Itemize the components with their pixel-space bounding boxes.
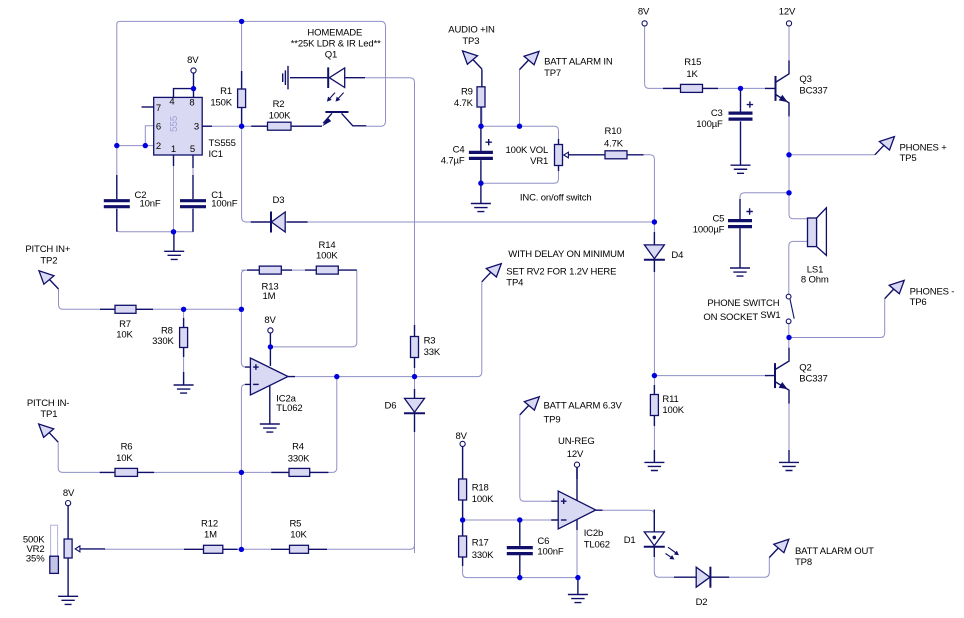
svg-text:TP1: TP1 <box>40 409 57 420</box>
svg-text:VR1: VR1 <box>530 156 548 167</box>
svg-text:WITH DELAY ON MINIMUM: WITH DELAY ON MINIMUM <box>508 249 625 260</box>
svg-text:D2: D2 <box>696 597 708 608</box>
svg-text:BC337: BC337 <box>799 86 827 97</box>
svg-text:8V: 8V <box>638 7 650 18</box>
svg-text:D1: D1 <box>624 535 636 546</box>
svg-text:12V: 12V <box>779 7 796 18</box>
svg-text:4: 4 <box>169 97 174 108</box>
svg-text:8: 8 <box>189 98 194 109</box>
svg-text:4.7K: 4.7K <box>604 138 624 149</box>
svg-text:TP4: TP4 <box>506 278 523 289</box>
svg-text:C4: C4 <box>453 145 465 156</box>
svg-text:R10: R10 <box>605 126 622 137</box>
svg-text:R8: R8 <box>161 325 173 336</box>
svg-text:Q1: Q1 <box>325 49 337 60</box>
svg-text:R1: R1 <box>220 86 232 97</box>
svg-text:ON SOCKET: ON SOCKET <box>703 312 758 323</box>
svg-text:R6: R6 <box>121 442 133 453</box>
svg-text:TP5: TP5 <box>900 153 917 164</box>
svg-text:R9: R9 <box>461 86 473 97</box>
svg-text:33K: 33K <box>424 347 441 358</box>
svg-text:SET RV2 FOR 1.2V HERE: SET RV2 FOR 1.2V HERE <box>506 267 616 278</box>
svg-text:IC2b: IC2b <box>584 528 603 539</box>
svg-text:C3: C3 <box>711 108 723 119</box>
svg-text:6: 6 <box>156 121 161 132</box>
svg-text:100K: 100K <box>316 251 338 262</box>
svg-text:D4: D4 <box>671 250 683 261</box>
svg-text:1M: 1M <box>204 530 217 541</box>
svg-text:BC337: BC337 <box>799 373 827 384</box>
svg-text:BATT ALARM 6.3V: BATT ALARM 6.3V <box>544 401 623 412</box>
svg-text:10K: 10K <box>116 330 133 341</box>
svg-text:8V: 8V <box>264 315 276 326</box>
svg-text:8V: 8V <box>456 431 468 442</box>
svg-text:1: 1 <box>171 144 176 155</box>
svg-text:TP7: TP7 <box>544 68 561 79</box>
svg-text:IC1: IC1 <box>209 149 223 160</box>
svg-text:10K: 10K <box>290 530 307 541</box>
svg-text:100K: 100K <box>269 111 291 122</box>
svg-text:330K: 330K <box>472 550 494 561</box>
svg-text:C5: C5 <box>712 213 724 224</box>
svg-text:150K: 150K <box>210 98 232 109</box>
svg-text:R7: R7 <box>119 319 131 330</box>
svg-text:100K: 100K <box>662 405 684 416</box>
svg-text:D6: D6 <box>385 400 397 411</box>
svg-text:BATT ALARM OUT: BATT ALARM OUT <box>795 546 874 557</box>
svg-text:7: 7 <box>156 103 161 114</box>
svg-text:8V: 8V <box>187 55 199 66</box>
svg-text:INC. on/off switch: INC. on/off switch <box>520 192 592 203</box>
svg-text:12V: 12V <box>567 449 584 460</box>
svg-text:R5: R5 <box>289 519 301 530</box>
svg-text:AUDIO +IN: AUDIO +IN <box>448 24 495 35</box>
svg-text:4.7µF: 4.7µF <box>441 155 465 166</box>
svg-text:PHONES +: PHONES + <box>900 142 948 153</box>
svg-text:1M: 1M <box>263 291 276 302</box>
svg-text:R17: R17 <box>472 538 489 549</box>
svg-text:100µF: 100µF <box>696 119 723 130</box>
svg-text:10nF: 10nF <box>140 199 161 210</box>
svg-text:TS555: TS555 <box>209 138 236 149</box>
svg-text:HOMEMADE: HOMEMADE <box>307 27 362 38</box>
svg-text:R11: R11 <box>662 394 678 405</box>
svg-text:330K: 330K <box>288 453 310 464</box>
svg-text:Q3: Q3 <box>799 74 811 85</box>
svg-text:3: 3 <box>194 121 199 132</box>
svg-text:100K: 100K <box>472 494 494 505</box>
svg-text:TP3: TP3 <box>462 36 479 47</box>
svg-text:D3: D3 <box>273 195 285 206</box>
svg-text:PHONES -: PHONES - <box>910 287 955 298</box>
svg-text:TL062: TL062 <box>584 540 610 551</box>
svg-text:555: 555 <box>169 115 180 132</box>
svg-text:PITCH IN+: PITCH IN+ <box>25 244 70 255</box>
svg-text:330K: 330K <box>152 336 174 347</box>
svg-text:**25K LDR & IR Led**: **25K LDR & IR Led** <box>291 38 381 49</box>
svg-text:R3: R3 <box>424 336 436 347</box>
svg-text:R14: R14 <box>319 240 336 251</box>
svg-text:TP8: TP8 <box>795 557 812 568</box>
svg-text:5: 5 <box>190 144 195 155</box>
svg-text:TL062: TL062 <box>276 403 302 414</box>
svg-text:2: 2 <box>156 141 161 152</box>
svg-text:R18: R18 <box>472 482 489 493</box>
svg-text:8V: 8V <box>63 488 75 499</box>
svg-text:8 Ohm: 8 Ohm <box>801 275 829 286</box>
svg-text:35%: 35% <box>26 553 45 564</box>
svg-text:SW1: SW1 <box>760 310 780 321</box>
svg-text:100K VOL: 100K VOL <box>506 145 549 156</box>
svg-text:R2: R2 <box>273 99 285 110</box>
svg-text:PITCH IN-: PITCH IN- <box>27 398 69 409</box>
svg-text:TP9: TP9 <box>544 414 561 425</box>
svg-text:R15: R15 <box>684 57 701 68</box>
svg-text:TP2: TP2 <box>40 255 57 266</box>
svg-text:C6: C6 <box>537 536 549 547</box>
svg-text:UN-REG: UN-REG <box>558 436 595 447</box>
svg-text:100nF: 100nF <box>211 199 238 210</box>
svg-text:R4: R4 <box>292 441 304 452</box>
svg-text:100nF: 100nF <box>537 547 564 558</box>
svg-text:R12: R12 <box>201 519 218 530</box>
svg-text:Q2: Q2 <box>799 362 811 373</box>
svg-text:4.7K: 4.7K <box>454 98 474 109</box>
svg-text:1000µF: 1000µF <box>693 225 725 236</box>
svg-text:BATT ALARM IN: BATT ALARM IN <box>544 57 613 68</box>
svg-text:1K: 1K <box>686 69 698 80</box>
svg-text:10K: 10K <box>116 453 133 464</box>
svg-text:PHONE SWITCH: PHONE SWITCH <box>707 298 779 309</box>
svg-text:TP6: TP6 <box>910 297 927 308</box>
